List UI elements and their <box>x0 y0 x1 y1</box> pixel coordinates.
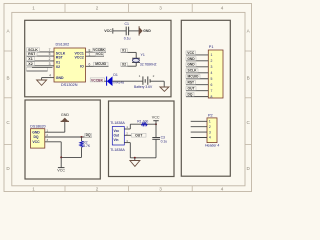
section box connectors <box>181 20 230 176</box>
connector P2 body <box>207 118 217 143</box>
svg-text:6: 6 <box>89 62 91 66</box>
port VCC P1-1 <box>186 51 196 55</box>
wire battery to gnd <box>150 80 164 82</box>
port X1 left <box>27 57 35 61</box>
svg-text:DQ: DQ <box>86 133 91 137</box>
chip U1 DS1302 body <box>54 48 86 82</box>
svg-text:D1: D1 <box>113 73 118 77</box>
svg-text:C1: C1 <box>125 22 130 26</box>
svg-text:R1 100: R1 100 <box>137 119 148 123</box>
svg-text:5: 5 <box>211 77 213 81</box>
svg-text:IO: IO <box>80 65 84 69</box>
zone divider bottom <box>128 186 130 192</box>
svg-text:Vcc: Vcc <box>114 129 120 133</box>
port X2 right <box>121 63 128 67</box>
port GND P1-2 <box>186 57 196 61</box>
zone divider right <box>245 97 252 99</box>
inner border <box>12 12 245 185</box>
battery B1 <box>142 76 144 84</box>
wire VCC1 net <box>86 51 107 53</box>
wire VCC to C3 <box>155 124 157 137</box>
svg-text:3: 3 <box>46 138 48 142</box>
junction DQ-R2 <box>81 136 83 138</box>
resistor R2 <box>81 137 83 141</box>
wire RST <box>27 55 55 57</box>
wire P1 pin 4 <box>186 72 208 74</box>
svg-text:4: 4 <box>209 136 211 140</box>
capacitor C1 <box>125 27 127 36</box>
outer border <box>4 4 252 192</box>
svg-text:X1: X1 <box>56 61 60 65</box>
svg-text:1: 1 <box>211 53 213 57</box>
svg-text:32.768KHZ: 32.768KHZ <box>140 62 157 66</box>
svg-text:2: 2 <box>209 125 211 129</box>
port VCCBK right <box>93 48 106 52</box>
svg-text:X2: X2 <box>28 62 32 66</box>
junction R1-VCC <box>155 123 157 125</box>
svg-text:5: 5 <box>49 52 51 56</box>
svg-text:DS18B20: DS18B20 <box>30 124 45 128</box>
svg-text:GND: GND <box>56 76 64 80</box>
svg-text:VCC: VCC <box>187 51 195 55</box>
chip U2 body <box>112 127 124 146</box>
svg-text:2: 2 <box>96 187 99 192</box>
port RST <box>27 52 38 56</box>
port SCLK <box>27 48 40 52</box>
ground U2 <box>130 161 140 167</box>
svg-text:4: 4 <box>221 6 224 11</box>
wire VCC u3 <box>45 141 61 143</box>
svg-text:MCUIO: MCUIO <box>95 62 106 66</box>
svg-text:OUT: OUT <box>135 133 143 137</box>
wire VCC stem u3 <box>60 157 62 167</box>
wire VCC2 net <box>86 55 105 57</box>
wire P1 pin 1 <box>186 54 208 56</box>
svg-text:GND: GND <box>32 130 40 134</box>
svg-text:TL1838A: TL1838A <box>110 121 125 125</box>
svg-text:1: 1 <box>209 120 211 124</box>
svg-text:RST: RST <box>56 56 64 60</box>
resistor R1 <box>141 123 147 126</box>
zone divider right <box>245 50 252 52</box>
svg-text:Header 4: Header 4 <box>205 143 219 147</box>
wire P1 pin 8 <box>186 96 208 98</box>
svg-text:P2: P2 <box>208 113 213 117</box>
wire GND pin <box>42 77 54 79</box>
svg-text:0.1u: 0.1u <box>161 139 168 143</box>
svg-text:MCUIO: MCUIO <box>188 75 199 79</box>
svg-text:1: 1 <box>139 74 141 78</box>
svg-text:2: 2 <box>46 133 48 137</box>
svg-text:4: 4 <box>221 187 224 192</box>
svg-text:Out: Out <box>114 133 120 137</box>
wire P1 pin 3 <box>186 66 208 68</box>
svg-text:3: 3 <box>159 6 162 11</box>
port OUT u2 <box>131 133 146 137</box>
wire u2 gnd pin <box>124 142 130 144</box>
wire GND u3 <box>45 131 65 133</box>
zone divider left <box>4 97 12 99</box>
wire IO net <box>86 65 109 67</box>
svg-text:4: 4 <box>49 74 51 78</box>
wire gnd row u2 <box>130 157 156 159</box>
zone divider right <box>245 144 252 146</box>
wire P1 pin 6 <box>186 84 208 86</box>
port MCUIO <box>94 62 109 66</box>
svg-text:3: 3 <box>159 187 162 192</box>
zone divider top <box>191 4 193 13</box>
wire X1 net <box>121 51 136 53</box>
port RST P1-6 <box>186 81 196 85</box>
wire X2 net <box>121 65 136 67</box>
svg-text:B: B <box>247 76 250 81</box>
svg-text:X2: X2 <box>122 62 126 66</box>
port X1 right <box>121 49 128 53</box>
svg-text:DS1302: DS1302 <box>56 42 70 46</box>
power port VCC u2 <box>155 121 157 124</box>
zone divider top <box>64 4 66 13</box>
svg-text:8: 8 <box>211 95 213 99</box>
zone divider left <box>4 50 12 52</box>
svg-text:4: 4 <box>211 71 213 75</box>
svg-text:GND: GND <box>187 57 195 61</box>
ground battery <box>160 87 169 91</box>
svg-text:6: 6 <box>211 83 213 87</box>
chip U3 DS18B20 body <box>31 129 45 148</box>
svg-text:X2: X2 <box>56 65 60 69</box>
junction gnd u2 <box>134 157 136 159</box>
wire R2 bottom <box>61 156 81 158</box>
wire D1 to battery <box>112 80 143 82</box>
junction VCC u3 <box>60 156 62 158</box>
wire P2 pin 3 <box>191 131 207 133</box>
svg-text:Vin: Vin <box>114 138 119 142</box>
svg-text:TL1838A: TL1838A <box>110 148 125 152</box>
svg-text:X1: X1 <box>28 57 32 61</box>
svg-text:2: 2 <box>96 6 99 11</box>
port wide row <box>27 67 48 71</box>
svg-text:DS1302N: DS1302N <box>61 83 78 87</box>
wire u2 out pin <box>124 134 131 136</box>
port SCLK P1-4 <box>186 69 198 73</box>
port VCC right <box>96 52 104 56</box>
wire VCC to C1 <box>113 30 126 32</box>
svg-text:VCC: VCC <box>152 115 160 119</box>
wire SCLK <box>27 51 55 53</box>
diode D1 <box>106 77 108 86</box>
svg-text:1: 1 <box>89 53 91 57</box>
section box RTC <box>25 20 171 97</box>
power port VCC u3 <box>58 167 65 169</box>
wire R1 row <box>130 123 156 125</box>
net label VCCBK battery <box>90 78 104 82</box>
power port GND top <box>138 26 140 35</box>
svg-text:2: 2 <box>211 59 213 63</box>
wire C3 bottom <box>155 139 157 158</box>
section box IR receiver <box>109 101 175 177</box>
svg-text:RST: RST <box>28 52 36 56</box>
wire P1 pin 2 <box>186 60 208 62</box>
svg-text:2: 2 <box>49 57 51 61</box>
wire DQ u3 <box>45 136 92 138</box>
svg-text:P1: P1 <box>209 45 214 49</box>
svg-text:1: 1 <box>32 187 35 192</box>
svg-text:RST: RST <box>187 81 194 85</box>
svg-text:DQ: DQ <box>33 135 38 139</box>
zone divider left <box>4 144 12 146</box>
wire X1 left <box>27 60 55 62</box>
svg-text:1: 1 <box>32 6 35 11</box>
svg-text:X1: X1 <box>122 49 126 53</box>
svg-text:DQ: DQ <box>188 93 193 97</box>
port GND P1-3 <box>186 63 196 67</box>
zone divider top <box>128 4 130 13</box>
wire P2 pin 4 <box>191 137 207 139</box>
svg-text:Battery 3.6V: Battery 3.6V <box>134 85 153 89</box>
wire gnd stem u3 <box>64 121 66 132</box>
svg-text:1: 1 <box>46 128 48 132</box>
sheet background <box>0 0 257 196</box>
connector P1 body <box>208 50 223 98</box>
svg-text:VCC: VCC <box>104 29 112 33</box>
svg-text:4.7K: 4.7K <box>83 144 91 148</box>
svg-text:2: 2 <box>153 74 155 78</box>
svg-text:GND: GND <box>61 113 70 117</box>
crystal Y1 <box>132 57 140 59</box>
wire P2 pin 1 <box>191 120 207 122</box>
svg-text:SCLK: SCLK <box>188 69 198 73</box>
port X2 left <box>27 62 35 66</box>
svg-text:3: 3 <box>211 65 213 69</box>
ground arrow U1 <box>37 80 47 85</box>
zone divider bottom <box>64 186 66 192</box>
svg-text:OUT: OUT <box>188 87 195 91</box>
svg-text:7: 7 <box>211 89 213 93</box>
svg-text:Y1: Y1 <box>141 53 145 57</box>
svg-text:VCC: VCC <box>96 52 104 56</box>
wire C1 to GND <box>129 30 140 32</box>
port DQ P1-8 <box>186 93 194 97</box>
wire P1 pin 5 <box>186 78 208 80</box>
wire P2 pin 2 <box>191 126 207 128</box>
svg-text:GND: GND <box>187 63 195 67</box>
wire X2 left <box>27 65 55 67</box>
svg-text:3: 3 <box>49 62 51 66</box>
svg-text:VCCBK: VCCBK <box>91 78 104 82</box>
svg-text:3: 3 <box>209 130 211 134</box>
zone divider bottom <box>191 186 193 192</box>
svg-text:VCC: VCC <box>57 168 65 172</box>
svg-text:VCC2: VCC2 <box>74 56 83 60</box>
port OUT P1-7 <box>186 87 196 91</box>
svg-text:GND: GND <box>143 29 151 33</box>
svg-text:VCC: VCC <box>32 140 40 144</box>
capacitor C3 <box>152 137 160 139</box>
section box temperature <box>25 100 100 179</box>
wire P1 pin 7 <box>186 90 208 92</box>
svg-text:0.1u: 0.1u <box>124 36 131 40</box>
wire gnd stem u2 <box>134 158 136 161</box>
port MCUIO P1-5 <box>186 75 200 79</box>
wire VCCBK to D1 <box>104 80 106 82</box>
power port GND u3 <box>62 118 68 121</box>
svg-text:B: B <box>6 76 9 81</box>
wire u2 vcc pin <box>124 128 130 130</box>
port DQ <box>85 134 92 137</box>
